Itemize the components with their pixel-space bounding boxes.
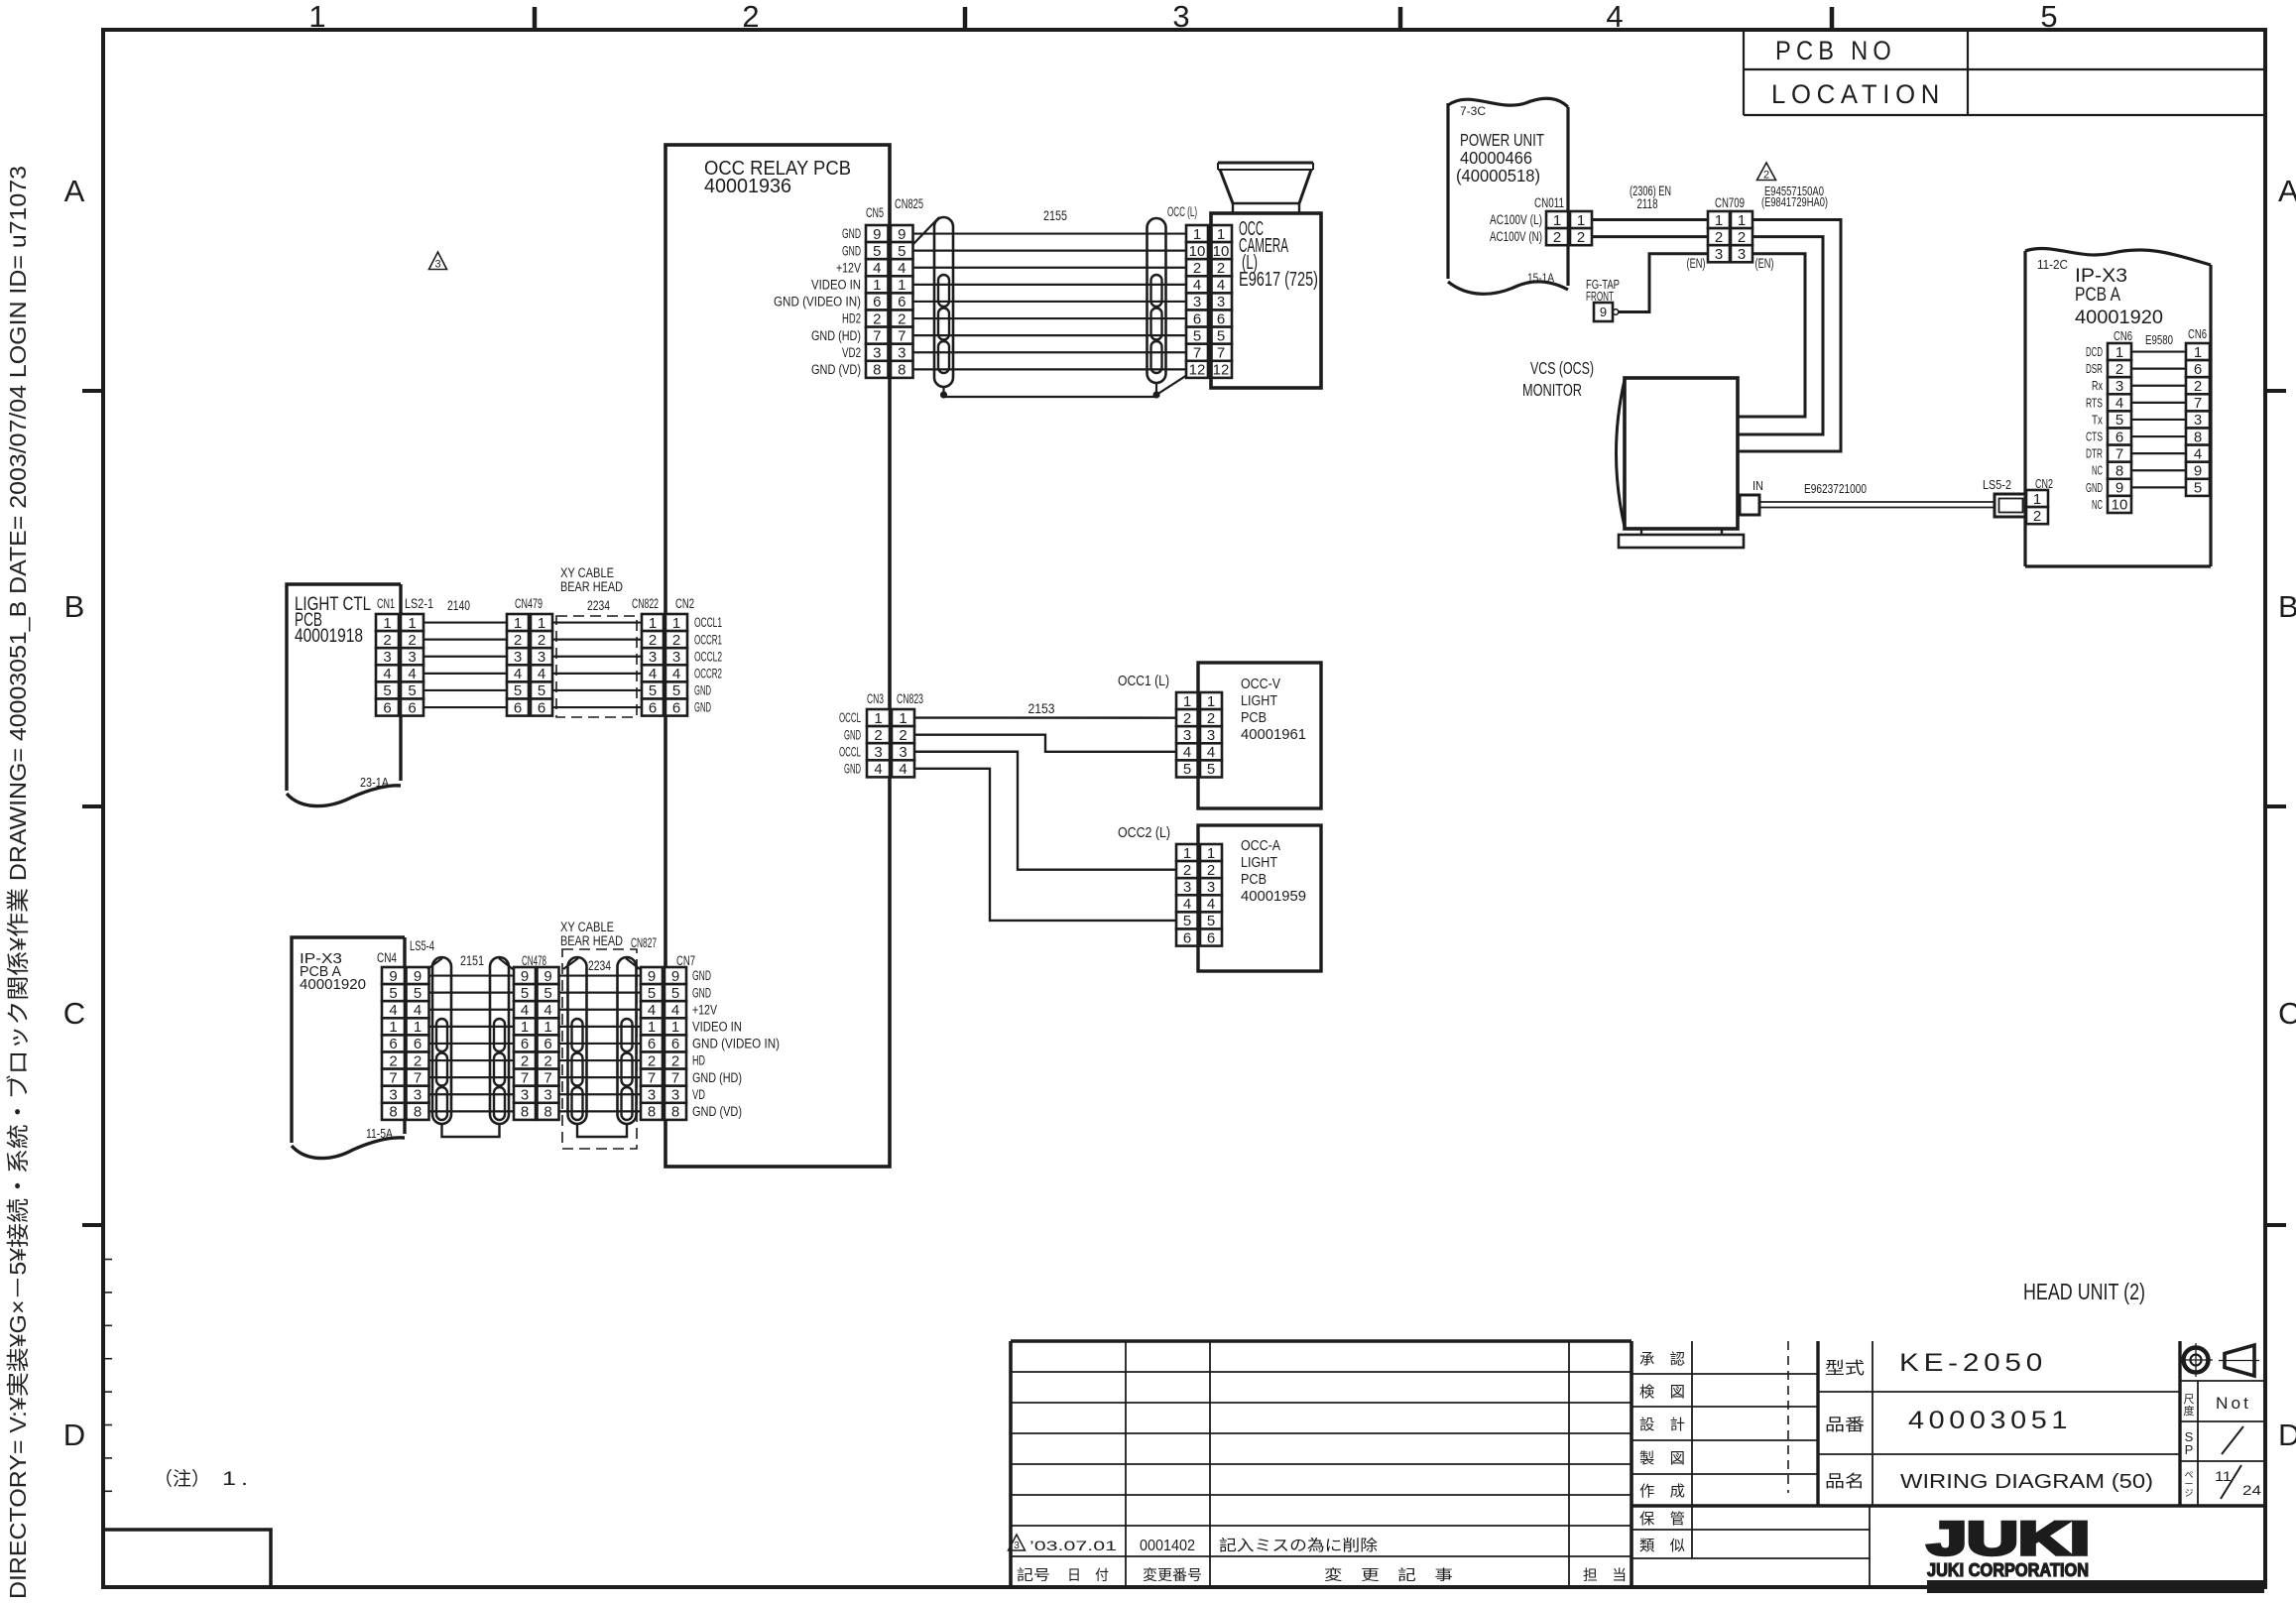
svg-text:10: 10 — [2112, 497, 2128, 514]
svg-text:5: 5 — [521, 985, 529, 1002]
svg-text:GND (VIDEO IN): GND (VIDEO IN) — [692, 1037, 780, 1051]
svg-text:GND (HD): GND (HD) — [811, 328, 861, 343]
svg-text:7: 7 — [671, 1069, 679, 1086]
svg-text:(EN): (EN) — [1687, 256, 1706, 271]
svg-text:7: 7 — [1217, 344, 1225, 361]
svg-text:10: 10 — [1213, 243, 1230, 260]
svg-text:2: 2 — [898, 310, 906, 327]
svg-text:3: 3 — [899, 744, 906, 761]
svg-text:11: 11 — [2215, 1468, 2232, 1484]
svg-text:品番: 品番 — [1825, 1416, 1865, 1434]
svg-text:DTR: DTR — [2086, 447, 2103, 461]
svg-text:LS5-2: LS5-2 — [1983, 478, 2011, 492]
svg-text:D: D — [2278, 1418, 2296, 1452]
svg-text:2234: 2234 — [588, 958, 611, 973]
svg-text:’03.07.01: ’03.07.01 — [1029, 1538, 1117, 1553]
svg-text:24: 24 — [2242, 1482, 2261, 1498]
svg-text:2: 2 — [1207, 862, 1215, 879]
svg-text:担 当: 担 当 — [1583, 1567, 1627, 1584]
svg-text:IN: IN — [1752, 479, 1763, 493]
svg-text:4: 4 — [521, 1002, 529, 1019]
svg-text:3: 3 — [1193, 294, 1201, 310]
svg-text:5: 5 — [389, 985, 397, 1002]
svg-text:3: 3 — [1183, 879, 1191, 896]
svg-text:4: 4 — [414, 1002, 422, 1019]
svg-text:6: 6 — [514, 699, 522, 716]
svg-text:5: 5 — [514, 682, 522, 699]
svg-text:1: 1 — [414, 1019, 422, 1036]
svg-text:9: 9 — [521, 968, 529, 985]
svg-text:6: 6 — [2115, 429, 2123, 445]
svg-text:CN1: CN1 — [377, 596, 395, 611]
svg-text:Tx: Tx — [2092, 413, 2104, 427]
svg-text:2: 2 — [1763, 170, 1769, 182]
svg-text:変更番号: 変更番号 — [1143, 1567, 1202, 1584]
svg-text:OCCR1: OCCR1 — [694, 632, 722, 647]
svg-text:0001402: 0001402 — [1140, 1538, 1195, 1554]
svg-text:1: 1 — [521, 1019, 529, 1036]
svg-text:2: 2 — [1217, 260, 1225, 277]
svg-text:GND (VD): GND (VD) — [811, 362, 861, 377]
svg-text:4: 4 — [898, 260, 906, 277]
svg-text:HD2: HD2 — [842, 311, 861, 326]
svg-text:5: 5 — [649, 682, 657, 699]
svg-text:HD: HD — [692, 1053, 705, 1068]
svg-text:OCC (L): OCC (L) — [1167, 204, 1197, 219]
svg-text:4: 4 — [1606, 0, 1623, 34]
svg-text:E9623721000: E9623721000 — [1804, 481, 1867, 496]
svg-text:POWER UNIT: POWER UNIT — [1460, 130, 1544, 150]
svg-text:GND: GND — [694, 700, 711, 715]
svg-text:7: 7 — [2194, 395, 2202, 412]
svg-text:OCCL2: OCCL2 — [694, 649, 722, 664]
svg-text:DCD: DCD — [2086, 345, 2103, 359]
svg-text:6: 6 — [538, 699, 545, 716]
svg-text:5: 5 — [1193, 327, 1201, 344]
svg-text:3: 3 — [514, 649, 522, 666]
svg-text:VCS (OCS): VCS (OCS) — [1530, 358, 1594, 378]
svg-text:8: 8 — [2194, 429, 2202, 445]
svg-text:2: 2 — [873, 310, 881, 327]
svg-text:5: 5 — [671, 985, 679, 1002]
svg-text:2: 2 — [389, 1052, 397, 1069]
svg-text:尺: 尺 — [2184, 1394, 2195, 1406]
svg-text:9: 9 — [873, 226, 881, 243]
svg-text:4: 4 — [538, 666, 545, 682]
svg-text:1: 1 — [408, 615, 416, 632]
svg-text:2: 2 — [2033, 508, 2041, 525]
svg-text:40003051: 40003051 — [1908, 1407, 2072, 1434]
svg-text:5: 5 — [1183, 913, 1191, 929]
svg-text:PCB A: PCB A — [2075, 285, 2120, 306]
svg-text:7: 7 — [414, 1069, 422, 1086]
svg-text:5: 5 — [898, 243, 906, 260]
svg-text:2: 2 — [1577, 229, 1585, 246]
svg-text:7: 7 — [2115, 445, 2123, 462]
svg-text:3: 3 — [873, 344, 881, 361]
svg-text:3: 3 — [2115, 378, 2123, 395]
svg-text:2: 2 — [1207, 710, 1215, 727]
svg-text:3: 3 — [1183, 727, 1191, 744]
svg-text:LOCATION: LOCATION — [1771, 79, 1945, 109]
svg-text:記入ミスの為に削除: 記入ミスの為に削除 — [1219, 1537, 1379, 1554]
svg-text:2155: 2155 — [1043, 208, 1067, 223]
svg-text:（注）: （注） — [154, 1468, 210, 1490]
svg-text:+12V: +12V — [692, 1002, 717, 1017]
svg-text:Not: Not — [2216, 1394, 2251, 1413]
svg-text:1: 1 — [649, 615, 657, 632]
svg-text:6: 6 — [383, 699, 391, 716]
svg-text:OCC-A: OCC-A — [1241, 837, 1280, 854]
svg-text:CN825: CN825 — [895, 196, 923, 211]
svg-text:3: 3 — [389, 1086, 397, 1103]
svg-text:3: 3 — [898, 344, 906, 361]
svg-text:GND (VIDEO IN): GND (VIDEO IN) — [774, 295, 861, 309]
svg-text:GND: GND — [842, 243, 861, 258]
svg-text:4: 4 — [1217, 277, 1225, 294]
svg-text:6: 6 — [2194, 361, 2202, 378]
svg-text:9: 9 — [414, 968, 422, 985]
svg-text:2: 2 — [1715, 229, 1723, 246]
svg-text:8: 8 — [648, 1104, 656, 1121]
svg-text:LS5-4: LS5-4 — [410, 938, 434, 953]
svg-text:40001920: 40001920 — [300, 976, 366, 993]
svg-text:WIRING DIAGRAM (50): WIRING DIAGRAM (50) — [1900, 1471, 2153, 1493]
svg-text:5: 5 — [672, 682, 680, 699]
svg-text:3: 3 — [1207, 879, 1215, 896]
svg-text:PCB: PCB — [1241, 871, 1267, 888]
svg-text:23-1A: 23-1A — [360, 775, 389, 790]
svg-text:E9580: E9580 — [2145, 333, 2173, 347]
svg-text:4: 4 — [874, 761, 882, 778]
svg-text:NC: NC — [2092, 464, 2103, 478]
svg-text:1: 1 — [1217, 226, 1225, 243]
svg-text:8: 8 — [671, 1104, 679, 1121]
svg-text:8: 8 — [544, 1104, 551, 1121]
svg-text:承 認: 承 認 — [1639, 1351, 1685, 1368]
svg-text:5: 5 — [538, 682, 545, 699]
svg-text:2: 2 — [383, 632, 391, 649]
svg-text:LIGHT: LIGHT — [1241, 692, 1277, 709]
svg-text:GND: GND — [844, 727, 861, 742]
svg-text:Rx: Rx — [2092, 379, 2104, 393]
svg-text:GND: GND — [842, 226, 861, 241]
svg-text:40001920: 40001920 — [2075, 308, 2163, 328]
svg-text:作 成: 作 成 — [1639, 1483, 1685, 1500]
svg-text:B: B — [64, 589, 85, 624]
svg-text:5: 5 — [544, 985, 551, 1002]
svg-text:1: 1 — [389, 1019, 397, 1036]
svg-text:2: 2 — [671, 1052, 679, 1069]
svg-text:3: 3 — [408, 649, 416, 666]
svg-text:2: 2 — [1738, 229, 1746, 246]
svg-text:1: 1 — [538, 615, 545, 632]
svg-text:(40000518): (40000518) — [1456, 166, 1540, 185]
svg-text:6: 6 — [1217, 310, 1225, 327]
svg-text:6: 6 — [521, 1036, 529, 1052]
svg-text:NC: NC — [2092, 498, 2103, 512]
svg-text:4: 4 — [649, 666, 657, 682]
svg-text:1: 1 — [898, 277, 906, 294]
svg-text:CN709: CN709 — [1715, 195, 1745, 210]
svg-text:11-5A: 11-5A — [366, 1126, 393, 1141]
svg-text:6: 6 — [873, 294, 881, 310]
svg-text:(E9841729HA0): (E9841729HA0) — [1761, 194, 1828, 209]
svg-text:GND: GND — [692, 968, 711, 983]
svg-text:5: 5 — [873, 243, 881, 260]
svg-text:1: 1 — [899, 710, 906, 727]
svg-text:PCB NO: PCB NO — [1775, 36, 1896, 65]
svg-text:A: A — [64, 174, 85, 208]
svg-text:CN6: CN6 — [2188, 327, 2207, 341]
svg-text:+12V: +12V — [836, 260, 861, 275]
svg-text:2: 2 — [538, 632, 545, 649]
svg-text:型式: 型式 — [1825, 1359, 1865, 1378]
svg-text:7: 7 — [873, 327, 881, 344]
svg-text:6: 6 — [1207, 929, 1215, 946]
svg-text:1: 1 — [514, 615, 522, 632]
svg-text:5: 5 — [1207, 913, 1215, 929]
svg-text:日 付: 日 付 — [1067, 1567, 1109, 1584]
svg-text:4: 4 — [389, 1002, 397, 1019]
svg-text:9: 9 — [544, 968, 551, 985]
svg-text:GND: GND — [844, 761, 861, 776]
svg-text:1: 1 — [1207, 693, 1215, 710]
svg-text:12: 12 — [1189, 362, 1206, 379]
svg-text:1: 1 — [1183, 693, 1191, 710]
svg-text:DSR: DSR — [2086, 362, 2103, 376]
svg-text:9: 9 — [2115, 480, 2123, 497]
svg-text:保 管: 保 管 — [1639, 1511, 1685, 1528]
svg-text:6: 6 — [898, 294, 906, 310]
svg-text:AC100V (L): AC100V (L) — [1490, 212, 1542, 227]
svg-text:VIDEO IN: VIDEO IN — [811, 277, 861, 292]
svg-text:LS2-1: LS2-1 — [405, 596, 433, 611]
svg-text:9: 9 — [389, 968, 397, 985]
svg-text:類 似: 類 似 — [1639, 1538, 1685, 1554]
svg-text:7-3C: 7-3C — [1460, 104, 1486, 118]
svg-text:40001918: 40001918 — [295, 626, 363, 647]
svg-text:OCCR2: OCCR2 — [694, 666, 722, 680]
svg-text:CN4: CN4 — [377, 950, 397, 965]
svg-text:2: 2 — [514, 632, 522, 649]
svg-text:JUKI CORPORATION: JUKI CORPORATION — [1927, 1560, 2089, 1580]
svg-text:OCCL1: OCCL1 — [694, 615, 722, 630]
svg-text:3: 3 — [1207, 727, 1215, 744]
svg-text:1: 1 — [383, 615, 391, 632]
svg-text:3: 3 — [538, 649, 545, 666]
svg-text:6: 6 — [649, 699, 657, 716]
svg-text:CN5: CN5 — [866, 205, 884, 220]
svg-text:GND: GND — [2086, 481, 2103, 495]
svg-text:4: 4 — [383, 666, 391, 682]
svg-text:2: 2 — [521, 1052, 529, 1069]
svg-text:4: 4 — [1183, 896, 1191, 913]
svg-text:8: 8 — [2115, 462, 2123, 479]
svg-text:2: 2 — [1553, 229, 1561, 246]
svg-text:1: 1 — [308, 0, 325, 34]
svg-text:XY CABLE: XY CABLE — [560, 920, 614, 934]
svg-text:VIDEO IN: VIDEO IN — [692, 1019, 742, 1034]
svg-text:OCC2 (L): OCC2 (L) — [1118, 824, 1170, 841]
svg-text:CN2: CN2 — [675, 596, 694, 611]
svg-text:1: 1 — [544, 1019, 551, 1036]
svg-text:3: 3 — [671, 1086, 679, 1103]
svg-text:1: 1 — [1738, 212, 1746, 229]
svg-text:6: 6 — [1183, 929, 1191, 946]
svg-text:3: 3 — [521, 1086, 529, 1103]
svg-text:B: B — [2278, 589, 2296, 624]
svg-text:7: 7 — [389, 1069, 397, 1086]
svg-text:OCC-V: OCC-V — [1241, 676, 1280, 692]
svg-text:1: 1 — [1577, 212, 1585, 229]
svg-text:5: 5 — [383, 682, 391, 699]
svg-text:8: 8 — [389, 1104, 397, 1121]
svg-text:2: 2 — [649, 632, 657, 649]
svg-text:9: 9 — [898, 226, 906, 243]
svg-text:2234: 2234 — [587, 598, 610, 613]
svg-text:CN3: CN3 — [867, 691, 884, 706]
svg-text:1: 1 — [1193, 226, 1201, 243]
svg-text:2: 2 — [414, 1052, 422, 1069]
svg-text:8: 8 — [898, 362, 906, 379]
svg-text:3: 3 — [2194, 412, 2202, 429]
svg-text:15-1A: 15-1A — [1527, 271, 1554, 285]
svg-text:3: 3 — [1014, 1541, 1020, 1551]
svg-text:6: 6 — [672, 699, 680, 716]
svg-text:2: 2 — [899, 727, 906, 744]
svg-text:4: 4 — [671, 1002, 679, 1019]
svg-text:40001959: 40001959 — [1241, 888, 1306, 905]
svg-text:3: 3 — [874, 744, 882, 761]
svg-text:製 図: 製 図 — [1639, 1450, 1685, 1467]
svg-text:7: 7 — [648, 1069, 656, 1086]
svg-text:GND: GND — [694, 683, 711, 698]
svg-text:6: 6 — [1193, 310, 1201, 327]
svg-text:度: 度 — [2184, 1404, 2195, 1418]
svg-text:40001961: 40001961 — [1241, 726, 1306, 743]
svg-text:RTS: RTS — [2086, 396, 2103, 410]
svg-text:5: 5 — [414, 985, 422, 1002]
svg-text:4: 4 — [1183, 744, 1191, 761]
svg-text:8: 8 — [414, 1104, 422, 1121]
svg-text:2140: 2140 — [447, 598, 470, 613]
svg-text:4: 4 — [544, 1002, 551, 1019]
svg-text:1: 1 — [672, 615, 680, 632]
svg-text:LIGHT: LIGHT — [1241, 854, 1277, 871]
svg-text:CN6: CN6 — [2114, 329, 2132, 343]
svg-text:KE-2050: KE-2050 — [1899, 1349, 2047, 1377]
svg-text:6: 6 — [414, 1036, 422, 1052]
svg-text:3: 3 — [414, 1086, 422, 1103]
svg-text:7: 7 — [544, 1069, 551, 1086]
svg-text:9: 9 — [2194, 462, 2202, 479]
svg-text:5: 5 — [1207, 761, 1215, 778]
svg-text:OCC1 (L): OCC1 (L) — [1118, 673, 1169, 689]
svg-text:7: 7 — [1193, 344, 1201, 361]
svg-text:6: 6 — [408, 699, 416, 716]
svg-text:1: 1 — [648, 1019, 656, 1036]
svg-text:1: 1 — [1183, 845, 1191, 862]
svg-text:4: 4 — [1193, 277, 1201, 294]
svg-text:MONITOR: MONITOR — [1522, 380, 1582, 400]
svg-text:GND: GND — [692, 985, 711, 1000]
svg-text:1: 1 — [2115, 344, 2123, 361]
svg-text:5: 5 — [2194, 480, 2202, 497]
svg-text:HEAD UNIT (2): HEAD UNIT (2) — [2023, 1279, 2145, 1304]
svg-text:CN822: CN822 — [632, 596, 659, 611]
svg-text:1: 1 — [1207, 845, 1215, 862]
svg-text:4: 4 — [899, 761, 906, 778]
svg-text:1: 1 — [2194, 344, 2202, 361]
svg-text:4: 4 — [672, 666, 680, 682]
svg-text:2: 2 — [1183, 710, 1191, 727]
svg-text:2: 2 — [408, 632, 416, 649]
svg-text:ジ: ジ — [2184, 1488, 2193, 1498]
svg-text:4: 4 — [648, 1002, 656, 1019]
svg-text:XY CABLE: XY CABLE — [560, 565, 614, 580]
svg-text:1 .: 1 . — [222, 1469, 248, 1490]
svg-text:CN011: CN011 — [1534, 195, 1564, 210]
svg-text:4: 4 — [514, 666, 522, 682]
svg-text:P: P — [2185, 1442, 2194, 1457]
svg-text:1: 1 — [1715, 212, 1723, 229]
svg-text:6: 6 — [544, 1036, 551, 1052]
svg-text:7: 7 — [898, 327, 906, 344]
svg-text:2: 2 — [544, 1052, 551, 1069]
svg-text:4: 4 — [2194, 445, 2202, 462]
svg-text:3: 3 — [1738, 246, 1746, 263]
svg-text:5: 5 — [648, 985, 656, 1002]
svg-text:1: 1 — [1553, 212, 1561, 229]
svg-text:8: 8 — [521, 1104, 529, 1121]
svg-text:3: 3 — [649, 649, 657, 666]
svg-text:3: 3 — [672, 649, 680, 666]
svg-text:CTS: CTS — [2086, 430, 2103, 443]
svg-text:3: 3 — [434, 259, 440, 271]
svg-text:VD: VD — [692, 1087, 705, 1102]
svg-text:3: 3 — [1217, 294, 1225, 310]
svg-text:40001936: 40001936 — [704, 176, 791, 197]
svg-text:設 計: 設 計 — [1639, 1417, 1685, 1433]
svg-text:C: C — [63, 996, 85, 1031]
svg-text:2: 2 — [2115, 361, 2123, 378]
svg-text:9: 9 — [648, 968, 656, 985]
svg-text:10: 10 — [1189, 243, 1206, 260]
svg-text:AC100V (N): AC100V (N) — [1490, 229, 1542, 244]
svg-text:2: 2 — [1183, 862, 1191, 879]
svg-text:4: 4 — [2115, 395, 2123, 412]
svg-text:2: 2 — [742, 0, 759, 34]
svg-text:2151: 2151 — [460, 953, 484, 968]
svg-text:3: 3 — [1172, 0, 1189, 34]
svg-text:8: 8 — [873, 362, 881, 379]
svg-text:2118: 2118 — [1637, 196, 1658, 211]
svg-text:2: 2 — [874, 727, 882, 744]
svg-text:5: 5 — [408, 682, 416, 699]
svg-text:CN823: CN823 — [897, 691, 923, 706]
svg-text:1: 1 — [671, 1019, 679, 1036]
svg-text:E9617 (725): E9617 (725) — [1239, 269, 1318, 291]
svg-text:5: 5 — [2040, 0, 2057, 34]
svg-text:DIRECTORY= V:¥実装¥G×－5¥接続・系統・ブ: DIRECTORY= V:¥実装¥G×－5¥接続・系統・ブロック関係¥作業 DR… — [5, 166, 31, 1599]
svg-text:11-2C: 11-2C — [2037, 258, 2068, 272]
svg-text:5: 5 — [2115, 412, 2123, 429]
svg-text:5: 5 — [1217, 327, 1225, 344]
svg-text:品名: 品名 — [1825, 1472, 1865, 1491]
svg-text:4: 4 — [1207, 744, 1215, 761]
svg-text:6: 6 — [671, 1036, 679, 1052]
